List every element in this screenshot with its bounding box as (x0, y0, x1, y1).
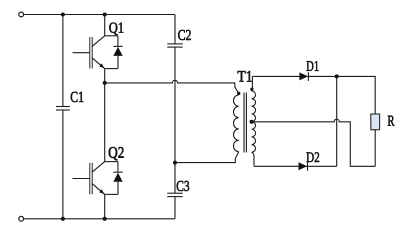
transistor Q1 (IGBT) (73, 36, 105, 69)
input terminal bottom-left (19, 216, 24, 221)
wire midpoint to transformer primary top (hop over C2/C3 branch) (105, 80, 239, 95)
label D2 (306, 152, 319, 162)
label R (388, 116, 395, 126)
node A junction (D1/D2 cathodes) (335, 74, 339, 78)
wire center tap to load bottom (hop over node-A vertical) (252, 119, 376, 166)
wire Q2 emitter to bottom rail (104, 194, 106, 218)
diode of Q2 (antiparallel) (105, 162, 123, 195)
wire Q1 emitter to Q2 collector (104, 69, 106, 162)
secondary top lead (251, 76, 254, 91)
wire C2 to C3 (174, 47, 176, 193)
resistor R (load) (371, 114, 380, 130)
node center tap junction (250, 120, 254, 124)
capacitor C1 (56, 107, 70, 111)
secondary polarity dot (250, 88, 253, 91)
node C2/C3 midpoint junction (173, 161, 177, 165)
diode D2 (299, 162, 308, 171)
transformer T1 core (244, 93, 246, 153)
diode D1 (299, 72, 308, 81)
secondary bottom lead (252, 152, 254, 166)
transformer T1 primary winding (233, 95, 238, 152)
node bottom rail / C1 junction (61, 217, 65, 221)
wire Q1 collector from top rail (104, 15, 106, 36)
node midpoint junction (103, 81, 107, 85)
node top rail / Q1 collector junction (103, 13, 107, 17)
label T1 (238, 71, 252, 82)
transistor Q2 (IGBT) (73, 162, 105, 195)
primary polarity dot (237, 92, 240, 95)
node bottom rail / Q2 emitter junction (103, 217, 107, 221)
wire R bottom lead (374, 130, 376, 167)
wire node A down to D2 output (336, 76, 338, 166)
label Q2 (109, 147, 124, 160)
wire C2/C3 midpoint to transformer primary bottom (175, 152, 239, 163)
label C1 (71, 92, 84, 102)
wire C2/C3 branch upper (174, 15, 176, 44)
wire bottom rail (24, 218, 175, 220)
wire secondary bottom through D2 to node A (254, 165, 337, 167)
capacitor C3 (167, 193, 182, 196)
wire C1 branch lower (62, 110, 64, 219)
wire C1 branch upper (62, 15, 64, 107)
input terminal top-left (19, 12, 24, 17)
label Q1 (109, 23, 123, 35)
diode of Q1 (antiparallel) (105, 36, 123, 69)
label C2 (178, 30, 191, 40)
wire top rail (24, 14, 175, 16)
capacitor C2 (167, 44, 182, 47)
wire secondary top to rectifier D1 and load R top (252, 76, 375, 114)
label C3 (177, 181, 189, 191)
wire C3 to bottom rail (174, 197, 176, 219)
node top rail / C1 junction (61, 13, 65, 17)
label D1 (307, 61, 319, 71)
transformer T1 secondary winding (252, 91, 256, 152)
